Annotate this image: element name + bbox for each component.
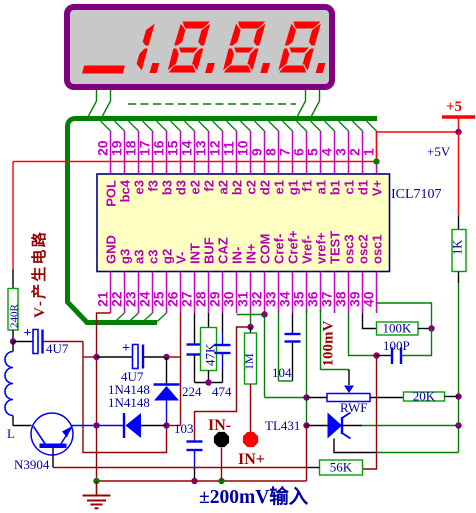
pin 7 wire (top): [283, 121, 293, 131]
svg-text:1N4148: 1N4148: [108, 395, 150, 410]
capacitor 103: [187, 440, 203, 442]
wire: base down to rail1: [52, 448, 54, 468]
pin 24 wire (bottom): [152, 272, 154, 314]
pin 36 wire (bottom): [320, 272, 322, 314]
svg-text:c3: c3: [146, 250, 161, 264]
resistor 20K: [404, 392, 445, 401]
svg-text:e3: e3: [132, 180, 147, 194]
wire: rail2 ground rail: [97, 480, 307, 482]
svg-text:osc3: osc3: [342, 234, 357, 264]
svg-text:INT: INT: [188, 243, 203, 264]
wire: stub to diode top node: [167, 356, 181, 358]
wire: T branch to GND node: [83, 356, 97, 358]
wire: stub to diode bottom node: [167, 425, 181, 427]
wire: RWF to 20K: [370, 397, 404, 399]
svg-text:V-: V-: [174, 252, 189, 264]
pin 20 wire (top): [101, 121, 111, 131]
svg-text:g1: g1: [286, 180, 301, 195]
pin 11 wire (top): [227, 121, 237, 131]
svg-text:V+: V+: [370, 180, 385, 197]
dashed green omitted-wires line: [128, 103, 296, 105]
ground symbol: [96, 481, 98, 496]
capacitor 474 on pin29: [222, 313, 224, 333]
wires: pins 22-25 to green bus: [114, 313, 125, 323]
svg-text:224: 224: [182, 384, 202, 399]
svg-text:Cref+: Cref+: [286, 230, 301, 264]
svg-text:56K: 56K: [330, 460, 353, 475]
wire: pin36 vref+ to RWF wiper: [321, 310, 350, 370]
wire: pin21 GND jog and down: [97, 313, 111, 481]
pin 17 wire (top): [143, 121, 153, 131]
svg-text:1M: 1M: [242, 353, 256, 370]
wire: +5V rail across to left side: [13, 161, 377, 163]
svg-text:47K: 47K: [203, 343, 218, 366]
resistor 100K: [377, 322, 419, 335]
potentiometer RWF: [344, 386, 354, 394]
digit 8 #3: [277, 21, 323, 73]
wire: pin38 to osc node: [349, 313, 377, 356]
svg-text:a2: a2: [216, 180, 231, 194]
pin 15 wire (top): [171, 121, 181, 131]
svg-text:RWF: RWF: [340, 400, 367, 415]
svg-text:CAZ: CAZ: [216, 237, 231, 264]
svg-text:1K: 1K: [451, 240, 465, 255]
svg-text:Vref-: Vref-: [300, 235, 315, 264]
node: IN- junction (green): [218, 478, 224, 484]
svg-text:TEST: TEST: [328, 231, 343, 264]
wire: +5 junction down to 1K: [458, 132, 460, 216]
+5 power bar symbol: [442, 115, 475, 118]
svg-text:+5V: +5V: [427, 144, 451, 159]
svg-text:a1: a1: [314, 180, 329, 194]
svg-text:474: 474: [212, 384, 232, 399]
svg-text:d2: d2: [258, 180, 273, 195]
wire: pin33 Cref- down: [278, 313, 280, 381]
svg-text:b3: b3: [160, 180, 175, 195]
pin 23 wire (bottom): [138, 272, 140, 314]
svg-text:a3: a3: [132, 250, 147, 264]
node: pin1 junction (green dot): [373, 158, 379, 164]
wire: +5 bar down to junction: [458, 117, 460, 132]
pin 2 wire (top): [353, 121, 363, 131]
svg-text:TL431: TL431: [265, 418, 300, 433]
decimal point: [316, 63, 326, 73]
wire: pin35 Vref- green down: [306, 310, 308, 426]
wire: IN- filter path to 103: [195, 327, 251, 442]
wire: cap to vertical A: [43, 341, 84, 343]
svg-text:20K: 20K: [413, 389, 436, 404]
node: 103 to ground rail: [191, 478, 197, 484]
svg-text:c1: c1: [342, 180, 357, 194]
wire: anode node down to ground rail: [306, 426, 308, 482]
pin 14 wire (top): [185, 121, 195, 131]
wire: pin39 to 100K: [363, 313, 377, 329]
pin 12 wire (top): [213, 121, 223, 131]
svg-text:f1: f1: [300, 180, 315, 192]
wire: vertical A down and across: [83, 342, 167, 453]
wire: right green vertical lower: [458, 397, 460, 453]
svg-text:f2: f2: [202, 180, 217, 192]
svg-text:g3: g3: [118, 249, 133, 264]
wire: 240R bottom to junction: [12, 330, 14, 342]
node: osc junction: [373, 352, 379, 358]
svg-text:IN+: IN+: [238, 451, 265, 468]
svg-text:vref+: vref+: [314, 232, 329, 264]
pin 18 wire (top): [129, 121, 139, 131]
svg-text:b2: b2: [230, 180, 245, 195]
pin 16 wire (top): [157, 121, 167, 131]
pin 26 wire (bottom): [180, 272, 182, 314]
svg-text:COM: COM: [258, 234, 273, 264]
svg-text:100K: 100K: [383, 321, 413, 336]
pin 6 wire (top): [297, 121, 307, 131]
svg-text:f3: f3: [146, 180, 161, 192]
pin 40 wire (bottom): [376, 272, 378, 314]
pin 21 wire (bottom): [110, 272, 112, 314]
pin 30 wire (bottom): [236, 272, 238, 314]
wire: osc node down to 56K: [363, 356, 377, 470]
pin 33 wire (bottom): [278, 272, 280, 314]
svg-text:4U7: 4U7: [46, 341, 69, 356]
pin 39 wire (bottom): [362, 272, 364, 314]
svg-text:osc2: osc2: [356, 234, 371, 264]
node: 20K right: [455, 393, 461, 399]
svg-text:d3: d3: [174, 180, 189, 195]
pin 4 wire (top): [325, 121, 335, 131]
digit 1: [134, 22, 156, 71]
svg-text:100P: 100P: [383, 338, 410, 353]
pin 32 wire (bottom): [264, 272, 266, 314]
pin 8 wire (top): [269, 121, 279, 131]
wire: L to transistor collector: [13, 425, 32, 427]
inductor L: [12, 342, 14, 352]
resistor 1M: [250, 327, 252, 333]
capacitor 100P: [391, 348, 393, 365]
svg-text:240R: 240R: [9, 304, 21, 329]
wire: cathode to right vertical: [342, 425, 362, 427]
node: 1M top junction: [247, 324, 253, 330]
pin 28 wire (bottom): [208, 272, 210, 314]
svg-text:d1: d1: [356, 180, 371, 195]
capacitor 4U7 (left, polarized): [13, 341, 33, 343]
node: diode junction: [163, 422, 169, 428]
node: junction dot below +5: [455, 129, 461, 135]
svg-text:+: +: [24, 326, 32, 341]
svg-text:100mV: 100mV: [321, 321, 337, 367]
svg-text:+: +: [122, 341, 130, 356]
wire: rail1 base-to-56K: [53, 467, 307, 469]
svg-text:POL: POL: [104, 180, 119, 207]
pin 5 wire (top): [311, 121, 321, 131]
svg-text:L: L: [7, 426, 15, 441]
resistor 1K: [452, 230, 466, 272]
svg-text:bc4: bc4: [118, 179, 133, 202]
svg-text:Cref-: Cref-: [272, 234, 287, 264]
svg-text:osc1: osc1: [370, 234, 385, 264]
pin 38 wire (bottom): [348, 272, 350, 314]
svg-text:IN+: IN+: [244, 243, 259, 264]
svg-text:c2: c2: [244, 180, 259, 194]
resistor 240R: [8, 289, 18, 331]
wire: down to 100P: [401, 329, 432, 356]
pin 19 wire (top): [115, 121, 125, 131]
pin 25 wire (bottom): [166, 272, 168, 314]
digit 8 #2: [221, 21, 267, 73]
pin 35 wire (bottom): [306, 272, 308, 314]
pin 37 wire (bottom): [334, 272, 336, 314]
terminal IN+: [243, 432, 258, 447]
node: pin32 COM junction: [261, 311, 267, 317]
display connection wires (green): [89, 90, 97, 116]
svg-text:ICL7107: ICL7107: [391, 187, 442, 202]
pin 29 wire (bottom): [222, 272, 224, 314]
wire: ref terminal loop: [334, 439, 376, 453]
pin 31 wire (bottom): [250, 272, 252, 314]
node: 100K right: [428, 325, 434, 331]
node: V- junction: [163, 354, 169, 360]
pin 13 wire (top): [199, 121, 209, 131]
svg-text:40: 40: [361, 291, 377, 307]
wire: left to RWF: [307, 397, 328, 399]
svg-text:IN-: IN-: [230, 247, 245, 264]
svg-text:V-产生电路: V-产生电路: [30, 230, 48, 318]
node: TL431 anode junction: [303, 422, 309, 428]
svg-text:g2: g2: [160, 249, 175, 264]
capacitor 4U7 (middle, polarized): [97, 356, 133, 358]
diode D2 1N4148 (vertical): [166, 357, 168, 384]
pin 10 wire (top): [241, 121, 251, 131]
wire: pin32 down: [264, 315, 266, 398]
minus sign segment: [82, 66, 125, 74]
svg-text:N3904: N3904: [14, 457, 50, 472]
wire: emitter to diode node: [72, 425, 97, 427]
svg-text:1: 1: [361, 148, 377, 156]
svg-text:e1: e1: [272, 180, 287, 194]
wire: pin30 to COM link (green): [237, 314, 265, 316]
wire: 1M bottom to IN+ terminal: [250, 384, 252, 433]
decimal point: [260, 63, 270, 73]
wire: across to vref node: [265, 397, 307, 399]
svg-text:BUF: BUF: [202, 237, 217, 264]
wire: pin26 V- down: [180, 313, 182, 426]
resistor 47K on pin28: [208, 313, 210, 328]
pin 3 wire (top): [339, 121, 349, 131]
pin 34 wire (bottom): [292, 272, 294, 314]
wire: left branch down to 240R: [12, 162, 14, 270]
decimal point: [205, 63, 215, 73]
wire: pin40 osc1 loop: [377, 303, 432, 329]
node: RWF-left junction: [303, 394, 309, 400]
pin 9 wire (top): [255, 121, 265, 131]
decimal point after 1: [150, 63, 160, 73]
7-segment LED display module: [67, 7, 332, 87]
svg-text:IN-: IN-: [208, 417, 231, 434]
svg-text:104: 104: [272, 365, 292, 380]
capacitor 104 on pin34: [292, 313, 294, 334]
IC U1 ICL7107 body: [97, 174, 390, 272]
svg-text:+5: +5: [446, 99, 462, 115]
transistor Q1 N3904: [31, 413, 73, 455]
diode D1 1N4148 (horizontal): [97, 425, 124, 427]
digit 8 #1: [166, 21, 212, 73]
capacitor 224 on pin27: [194, 313, 196, 345]
node: ground junction (green): [93, 478, 99, 484]
thick green display bus: [68, 119, 378, 323]
pin 22 wire (bottom): [124, 272, 126, 314]
wire: junction across to pin1: [377, 132, 459, 162]
node: GND/cap junction: [93, 354, 99, 360]
svg-text:103: 103: [174, 421, 194, 436]
node: emitter/diode junction: [93, 422, 99, 428]
node: cathode right: [455, 422, 461, 428]
pin 27 wire (bottom): [194, 272, 196, 314]
wire: 1K bottom down right side (green): [458, 272, 460, 284]
svg-text:±200mV输入: ±200mV输入: [199, 485, 309, 508]
svg-text:GND: GND: [104, 235, 119, 264]
wire: pin31 to 1M: [250, 313, 252, 327]
wire: integrator merge rail: [195, 382, 223, 384]
svg-text:e2: e2: [188, 180, 203, 194]
pin 1 wire (top): [367, 121, 377, 131]
svg-text:b1: b1: [328, 180, 343, 195]
node: integrator junction: [205, 379, 211, 385]
node: 240R/L/C junction: [10, 338, 16, 344]
resistor 56K: [320, 460, 363, 475]
